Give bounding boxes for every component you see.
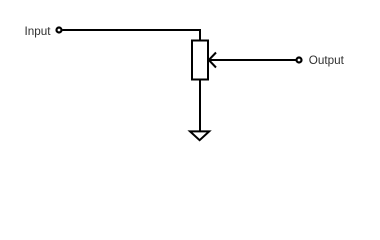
potentiometer R1 body [192,41,208,80]
ground symbol [190,131,209,140]
svg-text:Output: Output [309,54,345,67]
wire: wiper shaft to Output terminal [209,59,296,61]
wire: corner down to potentiometer top [199,29,201,41]
svg-text:Input: Input [25,25,52,38]
terminal Output (open circle) [297,58,302,63]
wire: potentiometer bottom to ground [199,80,201,132]
terminal Input (open circle) [57,28,62,33]
potentiometer wiper arrowhead [209,53,216,68]
wire: Input terminal to corner [63,29,201,31]
